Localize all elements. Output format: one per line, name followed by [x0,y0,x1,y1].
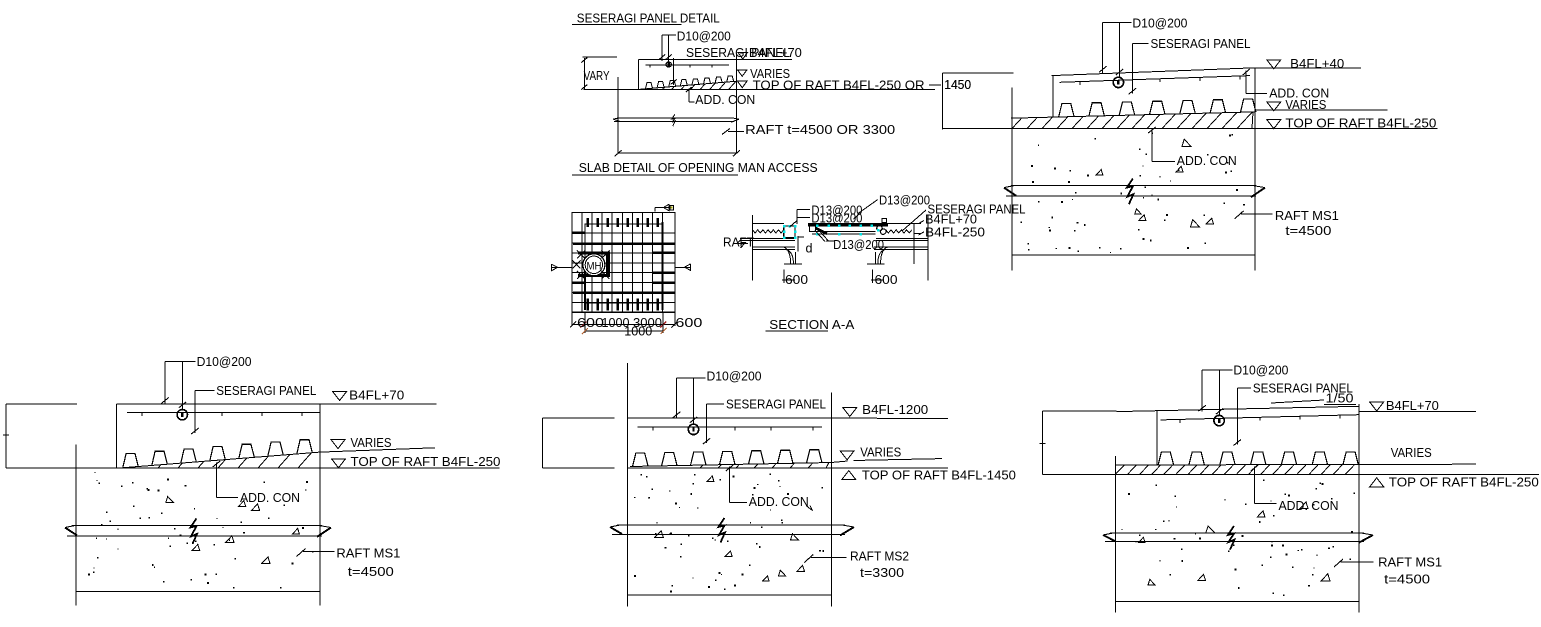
svg-text:ADD. CON: ADD. CON [1177,153,1237,168]
svg-text:B4FL+70: B4FL+70 [1386,398,1439,413]
section A-A: opening slab bold top band [808,223,888,226]
top-right detail: slab mesh line with ticks [1060,76,1250,85]
plan view: inner square [585,224,663,303]
svg-text:D13@200: D13@200 [811,211,862,226]
svg-text:B4FL+70: B4FL+70 [749,45,802,60]
bottom-right detail: label RAFT MS1 [1334,555,1442,587]
svg-text:RAFT MS1: RAFT MS1 [1378,555,1442,570]
bottom-left detail: hatch strip add. con [158,453,311,468]
section A-A: left support wavy screed line [753,230,784,233]
bottom-middle detail: concrete stipple [634,473,824,592]
bottom-right detail: level mark TOP OF RAFT B4FL-250 [1370,475,1539,490]
bottom-middle detail: ADD. CON trailing tick [806,506,813,511]
bottom-left detail: panel base line [120,448,435,468]
bottom-left detail: level mark VARIES [331,435,392,450]
bottom-middle detail: top of raft line [543,467,949,469]
svg-text:SECTION A-A: SECTION A-A [769,317,854,332]
svg-text:VARIES: VARIES [1391,445,1432,460]
svg-text:1/50: 1/50 [1326,391,1354,406]
top-right detail: concrete edge lines [1012,68,1255,270]
top-right detail: leader ADD. CON [1148,127,1237,168]
plan view: corner diagonal hatch around MH [573,251,610,280]
svg-text:TOP OF RAFT B4FL-250 OR: TOP OF RAFT B4FL-250 OR [753,78,925,93]
section A-A: selection grips (cyan) [783,224,879,238]
svg-text:D13@200: D13@200 [833,237,884,252]
section A-A: right haunch curves [867,247,888,264]
section A-A: label B4FL-250 [919,224,985,239]
plan view: mesh grid thin lines [572,213,675,313]
bottom-middle detail: level mark TOP OF RAFT B4FL-1450 [842,468,1016,483]
svg-text:SESERAGI PANEL: SESERAGI PANEL [726,397,826,412]
svg-text:VARIES: VARIES [860,445,901,460]
bottom-middle detail: slab top line / level line [543,417,949,419]
top-right detail: panel base line [1011,112,1255,118]
small detail: hatch wedge [662,81,736,89]
bottom-left detail: top of raft line [6,467,500,469]
top-right detail: break line with zigzag [1004,179,1265,205]
top-right detail: upper leader ADD. CON [1243,69,1330,101]
bottom-middle detail: left step profile [543,418,615,468]
svg-text:RAFT MS1: RAFT MS1 [336,546,400,561]
svg-text:TOP OF RAFT B4FL-250: TOP OF RAFT B4FL-250 [351,454,501,469]
bottom-left detail: mesh circle grip [177,410,187,420]
bottom-left detail: slab box left edge [115,404,117,468]
svg-text:SESERAGI PANEL DETAIL: SESERAGI PANEL DETAIL [577,11,720,26]
svg-text:t=4500: t=4500 [348,564,394,579]
small detail: slab mesh line with ticks [645,65,729,67]
plan view: MH circle [583,254,605,276]
plan view: MH opening box thick outline [578,252,610,277]
top-right detail: leader D10@200 [1099,16,1187,77]
section A-A: left support top edge [753,223,784,225]
bottom-middle detail: concrete edge lines [627,363,831,606]
bottom-right detail: slab mesh line with ticks [1161,415,1359,423]
bottom-left detail: leader D10@200 [161,354,251,409]
top-right detail: leader SESERAGI PANEL [1129,36,1251,95]
bottom-middle detail: mesh circle grip [688,424,698,434]
svg-text:ADD. CON: ADD. CON [749,494,809,509]
title: SECTION A-A [766,317,855,332]
svg-text:TOP OF RAFT B4FL-1450: TOP OF RAFT B4FL-1450 [862,468,1016,483]
top-right detail: level mark B4FL+40 [1255,56,1361,71]
plan view: MH text [587,261,602,273]
bottom-right detail: top of raft line [1043,474,1539,476]
svg-text:RAFT t=4500 OR 3300: RAFT t=4500 OR 3300 [745,122,895,137]
section A-A: right 600 dimension [871,270,898,287]
svg-text:600: 600 [675,315,702,330]
bottom-left detail: leader SESERAGI PANEL [191,383,316,434]
svg-text:VARIES: VARIES [351,435,392,450]
bottom-middle detail: leader ADD. CON [726,465,809,509]
top-right detail: hatch strip add. con [1012,112,1253,129]
bottom-right detail: hatch strip add. con [1115,465,1354,475]
top-right detail: raft bottom line [1012,254,1255,256]
svg-text:D10@200: D10@200 [677,29,731,44]
small detail: leader ADD. CON [686,87,755,107]
section A-A: label D13@200 top with leader [854,192,931,219]
svg-text:SESERAGI PANEL: SESERAGI PANEL [216,383,316,398]
svg-text:SLAB DETAIL OF OPENING MAN ACC: SLAB DETAIL OF OPENING MAN ACCESS [579,160,818,175]
bottom-right detail: raft bottom line [1115,601,1359,603]
svg-text:VARY: VARY [584,68,610,83]
top-right detail: mesh circle grip [1113,77,1123,87]
svg-text:RAFT MS1: RAFT MS1 [1275,208,1339,223]
svg-text:ADD. CON: ADD. CON [1279,498,1339,513]
top-right detail: label RAFT MS1 [1235,208,1339,238]
top-right detail: level mark TOP OF RAFT B4FL-250 [1267,115,1437,130]
section A-A: label B4FL+70 [919,212,977,227]
svg-text:t=4500: t=4500 [1285,223,1331,238]
svg-text:600: 600 [875,272,898,287]
bottom-left detail: level mark TOP OF RAFT B4FL-250 [332,454,501,469]
top-right detail: seseragi panel trapezoid deck [1059,99,1256,117]
bottom-middle detail: panel base line [630,461,848,467]
bottom-middle detail: level mark B4FL-1200 [843,402,928,417]
small detail: break line [613,114,739,126]
svg-text:D10@200: D10@200 [707,369,762,384]
top-right detail: 1450 level text [929,77,971,92]
small detail: leader SESERAGI PANEL down to panel [671,58,677,85]
bottom-left detail: level mark B4FL+70 [333,388,405,403]
svg-text:d: d [806,240,813,255]
svg-text:B4FL-1200: B4FL-1200 [862,402,928,417]
svg-text:TOP OF RAFT B4FL-250: TOP OF RAFT B4FL-250 [1389,475,1539,490]
svg-text:D13@200: D13@200 [879,192,930,207]
bottom-right detail: mesh circle grip [1214,415,1224,425]
bottom-middle detail: label RAFT MS2 [804,549,909,580]
bottom-left detail: break line with zigzag [65,519,331,544]
bottom-right detail: concrete stipple [1122,480,1356,596]
svg-text:t=4500: t=4500 [1384,571,1430,586]
section A-A: break mark and RAFT label [723,235,754,250]
top-right detail: left step profile [943,73,1014,130]
bottom-middle detail: hatch strip add. con [700,463,829,469]
bottom-left detail: leader ADD. CON [213,461,300,505]
title: SESERAGI PANEL DETAIL [572,11,720,26]
svg-text:ADD. CON: ADD. CON [695,92,755,107]
bottom-middle detail: slab mesh line with ticks [638,427,822,430]
svg-text:B4FL-250: B4FL-250 [925,224,985,239]
small detail: top of raft line and level text [584,77,972,93]
bottom-middle detail: leader SESERAGI PANEL [703,397,826,445]
top-right detail: slab top line / level line [1051,68,1254,76]
bottom-right detail: leader ADD. CON [1251,465,1339,513]
bottom-middle detail: raft bottom line [627,594,831,596]
svg-text:SESERAGI PANEL: SESERAGI PANEL [1151,36,1251,51]
bottom-right detail: slab top line / level line [1117,406,1359,411]
bottom-middle detail: leader D10@200 [673,369,762,425]
plan view: outer square [572,213,675,313]
svg-text:D10@200: D10@200 [1132,16,1187,31]
section A-A: small s mark [882,219,887,223]
section A-A: rebar section circles [877,226,886,235]
bottom-right detail: level mark B4FL+70 [1359,398,1476,413]
bottom-right detail: panel base line [1115,463,1476,466]
top-right detail: top of raft line [943,128,1438,130]
svg-text:ADD. CON: ADD. CON [240,490,300,505]
small detail: leader D10@200 [659,29,731,62]
section A-A: left edge-beam rebar box with grips [784,226,795,238]
small detail: concrete edges [618,53,736,153]
bottom-right detail: leader SESERAGI PANEL [1234,381,1353,446]
plan view: section cut line A-A with flags [551,264,691,271]
top-right detail: level mark VARIES [1255,97,1388,112]
svg-text:RAFT MS2: RAFT MS2 [850,549,909,564]
section A-A: label SESERAGI PANEL with leader [902,202,1026,231]
bottom-right detail: seseragi panel trapezoid deck [1158,452,1358,465]
bottom-right detail: slab box left edge [1156,411,1158,466]
small detail: level mark VARIES [738,66,791,81]
section A-A: left extension line [752,215,754,280]
plan view: bottom dimension line 2 with ticks [582,328,667,334]
plan view: thick rebar stubs left and right [573,222,675,310]
small detail: label SESERAGI PANEL overlapping B4FL+70 [686,45,802,60]
bottom-left detail: seseragi panel trapezoid deck [123,440,312,468]
bottom-left detail: slab mesh line with ticks [127,413,320,416]
section A-A: labels D13@200 pair with bracket [790,203,863,227]
section A-A: left haunch curves [783,247,802,264]
top-right detail: slab box left edge [1052,76,1054,118]
section A-A: opening slab soffit lines [812,232,876,235]
plan view: bottom dimension line 1 with ticks [570,312,677,333]
small detail: mesh circle [666,62,671,67]
bottom-middle detail: seseragi panel trapezoid deck [633,450,823,467]
plan view: dimension texts 600 1000 3000 600 / 1000 [577,315,702,339]
small detail: level mark B4FL+70 [738,53,748,60]
svg-text:TOP OF RAFT B4FL-250: TOP OF RAFT B4FL-250 [1285,115,1436,130]
section A-A: label D13@200 bottom with leader [815,230,884,252]
bottom-right detail: leader D10@200 [1199,362,1289,415]
section A-A: left support slab lines [740,238,795,249]
bottom-middle detail: break line with zigzag [610,518,854,543]
bottom-right detail: concrete edge lines [1115,404,1359,613]
svg-text:D10@200: D10@200 [197,354,252,369]
svg-text:D10@200: D10@200 [1233,362,1288,377]
bottom-left detail: concrete stipple [88,472,313,589]
svg-text:ADD. CON: ADD. CON [1269,86,1329,101]
svg-text:B4FL+70: B4FL+70 [349,388,404,403]
bottom-left detail: raft bottom line [76,591,320,593]
bottom-middle detail: level mark VARIES [840,445,942,461]
section A-A: anchorage rect and bent bar [810,225,827,234]
section A-A: left 600 dimension [782,270,808,287]
bottom-right detail: break line with zigzag [1103,526,1373,550]
small detail: label RAFT t=4500 OR 3300 [722,122,895,137]
bottom-right detail: level mark VARIES [1391,445,1432,460]
small detail: slab box and B4FL+70 level line [639,60,792,90]
bottom-right detail: left step profile [1040,411,1117,475]
small detail: bottom dimension line [615,150,740,156]
bottom-left detail: slab top line / level line [116,403,436,405]
svg-text:600: 600 [577,315,604,330]
svg-text:B4FL+40: B4FL+40 [1290,56,1344,71]
section A-A: right support wavy screed line [886,230,912,233]
svg-text:t=3300: t=3300 [860,565,904,580]
bottom-right detail: 1/50 slope indicator [1271,391,1356,406]
svg-text:600: 600 [785,272,808,287]
section A-A: right support lines [874,215,928,280]
small detail: seseragi panel trapezoids on slope [639,76,737,90]
svg-text:MH: MH [587,261,602,273]
title: SLAB DETAIL OF OPENING MAN ACCESS [572,160,818,175]
top-right detail: concrete stipple [1021,133,1245,253]
bottom-left detail: concrete edge lines [76,404,320,605]
bottom-left detail: label RAFT MS1 [297,546,401,579]
svg-text:1450: 1450 [944,77,971,92]
section A-A: d dimension [798,236,812,255]
bottom-left detail: left step profile [3,404,77,468]
small detail: VARY dimension [581,57,617,90]
plan view: thick rebar bars top and bottom [588,218,658,311]
plan view: top-right section marker [655,204,674,211]
svg-text:1000: 1000 [624,324,652,339]
